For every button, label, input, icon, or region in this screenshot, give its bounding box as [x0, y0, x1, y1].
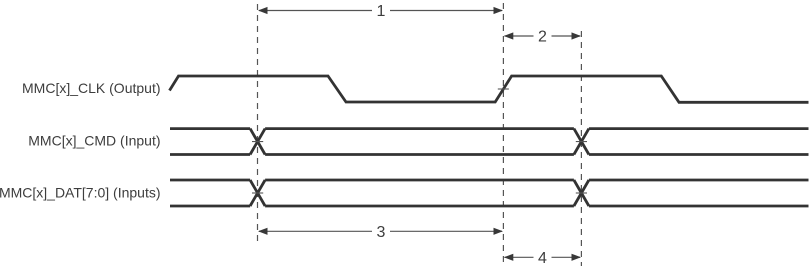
bus MMC[x]_CMD crossover at line A: [250, 129, 265, 155]
tick at CMD crossover C: [576, 141, 587, 143]
bus MMC[x]_DAT crossover at line A: [250, 180, 265, 206]
bus MMC[x]_DAT top rail: [170, 179, 809, 182]
svg-text:MMC[x]_CMD (Input): MMC[x]_CMD (Input): [28, 132, 160, 148]
bus MMC[x]_DAT crossover at line C: [574, 180, 589, 206]
tick at CMD crossover A: [252, 141, 263, 143]
dimension arrow 4 (between lines B and C): [504, 248, 581, 267]
dimension arrow 1 (between lines A and B): [258, 1, 503, 20]
svg-text:MMC[x]_CLK (Output): MMC[x]_CLK (Output): [22, 80, 160, 96]
bus MMC[x]_CMD crossover at line C: [574, 129, 589, 155]
dimension arrow 2 (between lines B and C): [504, 27, 581, 46]
tick at DAT crossover C: [576, 192, 587, 194]
svg-text:4: 4: [538, 250, 547, 267]
svg-text:1: 1: [377, 3, 386, 20]
waveform MMC[x]_CLK: [170, 76, 809, 102]
svg-text:3: 3: [377, 224, 386, 241]
dashed timing reference line B (x=503.4): [502, 3, 504, 266]
dimension arrow 3 (between lines A and B): [258, 222, 503, 241]
tick at DAT crossover A: [252, 192, 263, 194]
svg-text:MMC[x]_DAT[7:0] (Inputs): MMC[x]_DAT[7:0] (Inputs): [0, 185, 161, 201]
dashed timing reference line A (x=257.5): [257, 4, 259, 244]
bus MMC[x]_CMD top rail: [170, 127, 809, 130]
bus MMC[x]_DAT bottom rail: [170, 205, 809, 208]
bus MMC[x]_CMD bottom rail: [170, 153, 809, 156]
tick at CLK rising edge on line B: [498, 88, 509, 90]
svg-text:2: 2: [538, 29, 547, 46]
dashed timing reference line C (x=581.4): [580, 31, 582, 266]
